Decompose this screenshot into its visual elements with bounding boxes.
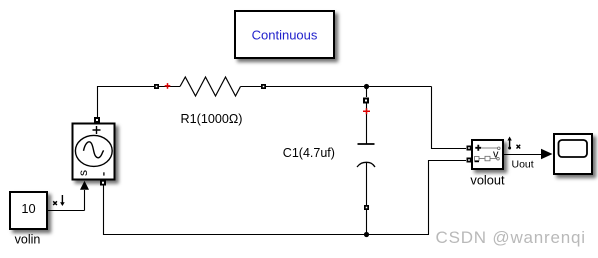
svg-text:volin: volin xyxy=(15,233,41,247)
svg-text:C1(4.7uf): C1(4.7uf) xyxy=(283,146,335,160)
svg-text:s: s xyxy=(76,170,90,176)
svg-text:v: v xyxy=(493,148,499,160)
svg-text:10: 10 xyxy=(21,201,35,216)
svg-text:Uout: Uout xyxy=(512,159,534,171)
svg-text:R1(1000Ω): R1(1000Ω) xyxy=(181,112,243,126)
svg-text:volout: volout xyxy=(470,172,505,187)
svg-text:CSDN @wanrenqi: CSDN @wanrenqi xyxy=(436,228,586,247)
svg-text:Continuous: Continuous xyxy=(252,27,318,42)
